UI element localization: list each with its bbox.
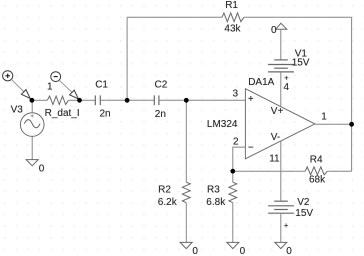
wire: node N1 to R_dat_I <box>32 99 47 101</box>
svg-text:6.8k: 6.8k <box>206 197 226 208</box>
resistor R3 (vertical) <box>232 171 234 182</box>
capacitor C2 <box>154 95 159 105</box>
wire: op-amp pin 11 down <box>280 141 282 201</box>
svg-text:2: 2 <box>233 137 239 148</box>
svg-text:0: 0 <box>286 246 292 256</box>
capacitor C1 <box>95 95 100 105</box>
probe marker plus <box>3 71 13 81</box>
wire: N2 to C1 <box>80 99 96 101</box>
wire: R2 to ground <box>185 203 187 243</box>
wire: right drop to output node N6 <box>351 17 353 124</box>
battery V1 15V <box>268 60 294 72</box>
node N4 junction <box>184 98 189 103</box>
resistor R4 <box>305 167 327 175</box>
V3 plus mark <box>31 114 34 117</box>
svg-text:R4: R4 <box>310 155 323 166</box>
svg-text:6.2k: 6.2k <box>158 197 178 208</box>
wire: V1 to op-amp pin 4 <box>280 72 282 107</box>
svg-text:68k: 68k <box>309 174 326 185</box>
wire: N4 to op-amp pin 3 <box>186 99 245 101</box>
svg-text:3: 3 <box>233 89 239 100</box>
svg-text:DA1A: DA1A <box>248 77 274 88</box>
wire: N6 down to R4 rail <box>351 124 353 171</box>
source V3 (sine) <box>31 100 33 113</box>
svg-text:V3: V3 <box>11 105 24 116</box>
wire: top rail right segment <box>244 16 352 18</box>
resistor R1 <box>222 13 244 22</box>
node N1 junction <box>30 98 35 103</box>
wire: output from apex to node N6 <box>315 123 352 125</box>
node N6 junction <box>349 122 354 127</box>
wire: R_dat_I to node N2 <box>68 99 79 101</box>
svg-text:1: 1 <box>321 111 327 122</box>
wire: ground to V1 <box>280 29 282 60</box>
svg-text:R2: R2 <box>158 184 171 195</box>
svg-text:2n: 2n <box>155 109 166 120</box>
probe marker minus <box>51 72 61 82</box>
svg-text:0: 0 <box>240 246 246 256</box>
ground 0 below R3 <box>227 242 239 248</box>
ground 0 below R2 <box>180 242 192 248</box>
svg-text:0: 0 <box>39 164 45 175</box>
node N3 junction <box>125 98 130 103</box>
svg-text:R_dat_I: R_dat_I <box>45 108 80 119</box>
op-amp U1 LM324 triangle <box>245 89 315 159</box>
wire: top rail left segment <box>127 16 222 18</box>
wire: op-amp pin 2 stub <box>233 147 246 171</box>
svg-text:V-: V- <box>271 132 280 143</box>
op-amp + input mark <box>248 96 253 101</box>
wire: N5 to R4 <box>233 170 305 172</box>
svg-text:0: 0 <box>192 246 198 256</box>
ground 0 below V3 <box>26 160 38 166</box>
svg-text:11: 11 <box>269 154 280 165</box>
ground 0 below V2 <box>275 242 287 248</box>
svg-text:15V: 15V <box>295 208 313 219</box>
svg-text:LM324: LM324 <box>207 119 238 130</box>
svg-text:+: + <box>284 74 289 83</box>
svg-text:C1: C1 <box>95 80 108 91</box>
wire: R3 to ground <box>232 203 234 243</box>
node N5 junction <box>230 169 235 174</box>
resistor R2 (vertical) <box>185 100 187 182</box>
svg-text:1: 1 <box>47 82 53 93</box>
wire: R1 feedback riser at N3 <box>126 17 128 100</box>
svg-text:43k: 43k <box>224 24 241 35</box>
svg-text:R1: R1 <box>225 0 238 11</box>
wire: C2 to node N4 <box>159 99 186 101</box>
svg-text:C2: C2 <box>155 80 168 91</box>
wire: R4 to right riser <box>327 170 351 172</box>
svg-text:2n: 2n <box>100 109 111 120</box>
node N2 junction <box>77 98 82 103</box>
svg-text:+: + <box>284 221 289 230</box>
svg-text:15V: 15V <box>292 57 310 68</box>
wire: V2 to ground <box>280 213 282 242</box>
resistor R_dat_I <box>47 96 68 104</box>
ground 0 above V1 (pointing up) <box>276 23 287 29</box>
battery V2 15V <box>268 201 294 213</box>
svg-text:V+: V+ <box>271 106 284 117</box>
svg-text:R3: R3 <box>207 184 220 195</box>
op-amp - input mark <box>248 146 253 148</box>
svg-text:V2: V2 <box>297 197 310 208</box>
wire: N3 to C2 <box>127 99 154 101</box>
wire: V3 to ground <box>31 136 33 159</box>
svg-text:0: 0 <box>271 25 277 36</box>
svg-text:4: 4 <box>284 82 290 93</box>
wire: C1 to node N3 <box>100 99 127 101</box>
